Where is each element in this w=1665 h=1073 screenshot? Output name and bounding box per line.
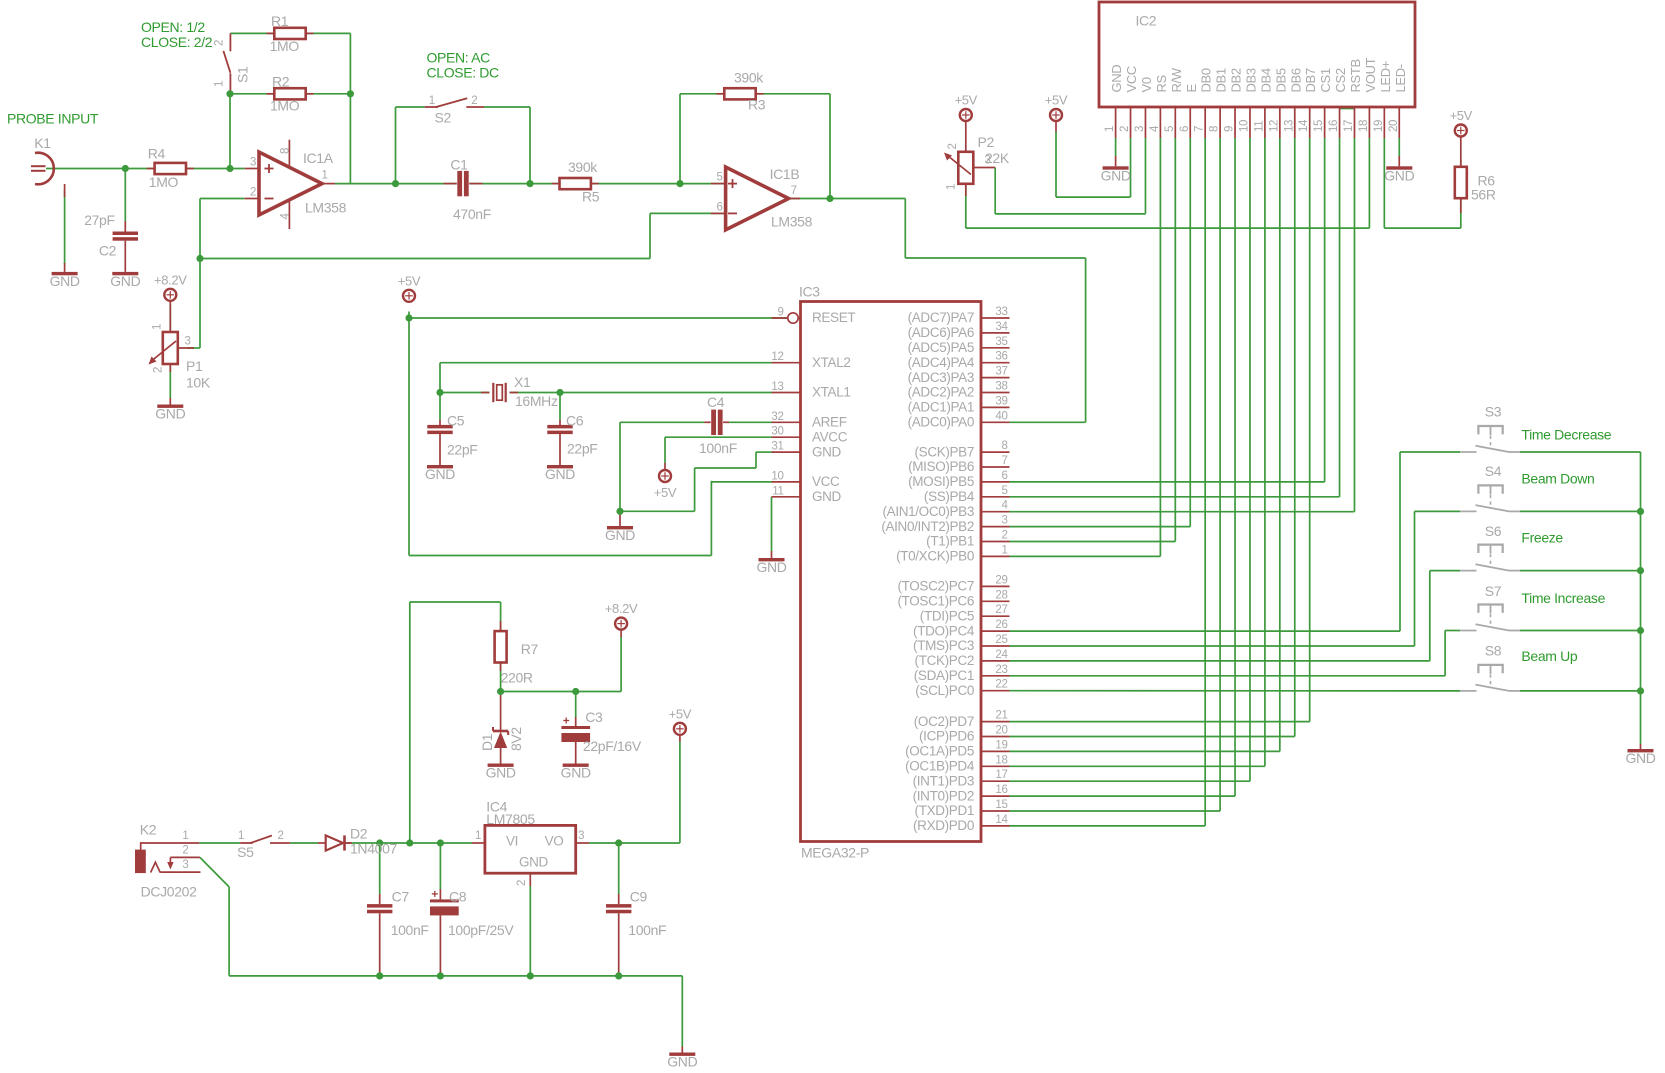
svg-text:GND: GND bbox=[519, 855, 549, 870]
svg-text:+5V: +5V bbox=[1450, 108, 1473, 123]
svg-text:13: 13 bbox=[1283, 120, 1295, 132]
svg-text:22pF/16V: 22pF/16V bbox=[583, 738, 642, 754]
svg-text:5: 5 bbox=[717, 172, 723, 184]
svg-text:X1: X1 bbox=[514, 374, 531, 390]
svg-text:2: 2 bbox=[153, 367, 165, 373]
svg-text:6: 6 bbox=[1179, 126, 1191, 132]
svg-text:D1: D1 bbox=[479, 733, 495, 751]
svg-text:24: 24 bbox=[995, 649, 1008, 661]
svg-text:(ADC5)PA5: (ADC5)PA5 bbox=[908, 340, 974, 355]
svg-text:3: 3 bbox=[985, 155, 991, 167]
svg-text:C8: C8 bbox=[449, 889, 467, 905]
svg-text:(RXD)PD0: (RXD)PD0 bbox=[913, 818, 974, 833]
svg-text:12: 12 bbox=[771, 351, 783, 363]
svg-text:AREF: AREF bbox=[812, 415, 847, 430]
svg-text:26: 26 bbox=[995, 619, 1007, 631]
svg-text:R2: R2 bbox=[272, 74, 290, 90]
svg-text:(TDO)PC4: (TDO)PC4 bbox=[913, 623, 975, 638]
svg-text:R/W: R/W bbox=[1169, 67, 1184, 92]
svg-text:(ADC3)PA3: (ADC3)PA3 bbox=[908, 370, 974, 385]
svg-text:C3: C3 bbox=[585, 709, 603, 725]
svg-text:390k: 390k bbox=[734, 70, 764, 86]
svg-text:28: 28 bbox=[995, 589, 1007, 601]
svg-text:6: 6 bbox=[1001, 470, 1007, 482]
svg-text:29: 29 bbox=[995, 574, 1007, 586]
svg-text:9: 9 bbox=[1224, 126, 1236, 132]
svg-text:P2: P2 bbox=[978, 134, 995, 150]
svg-text:RSTB: RSTB bbox=[1348, 59, 1363, 92]
svg-text:(OC1A)PD5: (OC1A)PD5 bbox=[905, 744, 974, 759]
svg-text:(TMS)PC3: (TMS)PC3 bbox=[913, 638, 974, 653]
svg-text:GND: GND bbox=[605, 527, 635, 543]
svg-text:(INT1)PD3: (INT1)PD3 bbox=[913, 773, 974, 788]
svg-text:+8.2V: +8.2V bbox=[605, 601, 638, 616]
svg-text:(ADC7)PA7: (ADC7)PA7 bbox=[908, 310, 974, 325]
svg-text:DB2: DB2 bbox=[1229, 68, 1244, 92]
svg-text:R7: R7 bbox=[521, 641, 539, 657]
svg-text:CS1: CS1 bbox=[1318, 68, 1333, 92]
svg-text:+5V: +5V bbox=[669, 706, 692, 721]
svg-text:D2: D2 bbox=[350, 826, 368, 842]
svg-text:33: 33 bbox=[995, 306, 1007, 318]
svg-text:C6: C6 bbox=[566, 413, 584, 429]
svg-text:1: 1 bbox=[152, 324, 164, 330]
svg-text:(TOSC1)PC6: (TOSC1)PC6 bbox=[897, 594, 974, 609]
svg-text:13: 13 bbox=[771, 381, 783, 393]
svg-text:19: 19 bbox=[1373, 120, 1385, 132]
svg-text:Time Increase: Time Increase bbox=[1521, 590, 1605, 606]
svg-text:31: 31 bbox=[771, 441, 783, 453]
svg-text:23: 23 bbox=[995, 664, 1007, 676]
svg-text:1: 1 bbox=[429, 95, 435, 107]
svg-text:18: 18 bbox=[995, 754, 1007, 766]
svg-text:2: 2 bbox=[1119, 126, 1131, 132]
svg-text:R3: R3 bbox=[748, 97, 766, 113]
svg-text:LM358: LM358 bbox=[771, 214, 813, 230]
svg-text:20: 20 bbox=[995, 725, 1007, 737]
svg-text:9: 9 bbox=[777, 307, 783, 319]
svg-text:S8: S8 bbox=[1485, 642, 1502, 658]
svg-text:R1: R1 bbox=[271, 13, 289, 29]
svg-text:7: 7 bbox=[1194, 126, 1206, 132]
svg-text:LM358: LM358 bbox=[305, 200, 347, 216]
svg-text:(ICP)PD6: (ICP)PD6 bbox=[919, 729, 974, 744]
svg-text:(AIN1/OC0)PB3: (AIN1/OC0)PB3 bbox=[883, 504, 974, 519]
svg-text:(TXD)PD1: (TXD)PD1 bbox=[915, 803, 974, 818]
svg-text:1: 1 bbox=[214, 81, 226, 87]
svg-text:+5V: +5V bbox=[955, 93, 978, 108]
svg-text:Freeze: Freeze bbox=[1521, 530, 1563, 546]
svg-text:14: 14 bbox=[995, 814, 1008, 826]
svg-text:2: 2 bbox=[947, 143, 959, 149]
svg-text:GND: GND bbox=[812, 489, 842, 504]
svg-text:C7: C7 bbox=[392, 889, 410, 905]
svg-text:32: 32 bbox=[771, 411, 783, 423]
svg-text:VO: VO bbox=[545, 834, 564, 849]
svg-text:S5: S5 bbox=[237, 844, 254, 860]
svg-text:(ADC2)PA2: (ADC2)PA2 bbox=[908, 385, 974, 400]
svg-text:DCJ0202: DCJ0202 bbox=[141, 884, 197, 900]
svg-text:8: 8 bbox=[1209, 126, 1221, 132]
svg-text:3: 3 bbox=[1134, 126, 1146, 132]
svg-text:22pF: 22pF bbox=[567, 441, 598, 457]
svg-text:GND: GND bbox=[110, 273, 140, 289]
svg-text:+5V: +5V bbox=[654, 485, 677, 500]
svg-text:4: 4 bbox=[280, 213, 292, 220]
svg-text:GND: GND bbox=[667, 1054, 697, 1070]
svg-text:S6: S6 bbox=[1485, 523, 1502, 539]
svg-text:GND: GND bbox=[1625, 750, 1655, 766]
svg-text:GND: GND bbox=[1101, 168, 1131, 184]
svg-text:15: 15 bbox=[995, 799, 1007, 811]
svg-text:(ADC1)PA1: (ADC1)PA1 bbox=[908, 400, 974, 415]
svg-text:IC1B: IC1B bbox=[770, 166, 800, 182]
svg-text:Time Decrease: Time Decrease bbox=[1521, 427, 1611, 443]
svg-text:100nF: 100nF bbox=[391, 922, 429, 938]
svg-text:19: 19 bbox=[995, 739, 1007, 751]
svg-text:6: 6 bbox=[717, 201, 723, 213]
svg-text:1MO: 1MO bbox=[270, 98, 300, 114]
svg-text:GND: GND bbox=[50, 273, 80, 289]
svg-text:(TDI)PC5: (TDI)PC5 bbox=[920, 608, 974, 623]
svg-text:R4: R4 bbox=[148, 146, 166, 162]
svg-text:1: 1 bbox=[1104, 126, 1116, 132]
svg-text:15: 15 bbox=[1313, 120, 1325, 132]
svg-text:27pF: 27pF bbox=[84, 212, 115, 228]
svg-text:8: 8 bbox=[280, 148, 292, 154]
svg-text:P1: P1 bbox=[186, 358, 203, 374]
svg-text:DB1: DB1 bbox=[1214, 68, 1229, 92]
svg-text:(INT0)PD2: (INT0)PD2 bbox=[913, 788, 974, 803]
svg-text:GND: GND bbox=[545, 466, 575, 482]
svg-text:16MHz: 16MHz bbox=[515, 393, 558, 409]
svg-text:S7: S7 bbox=[1485, 583, 1502, 599]
svg-text:1N4007: 1N4007 bbox=[350, 841, 398, 857]
svg-text:GND: GND bbox=[425, 466, 455, 482]
svg-text:25: 25 bbox=[995, 634, 1007, 646]
svg-text:37: 37 bbox=[995, 366, 1007, 378]
svg-text:(SS)PB4: (SS)PB4 bbox=[924, 489, 975, 504]
svg-text:7: 7 bbox=[791, 185, 797, 197]
svg-text:IC3: IC3 bbox=[799, 284, 820, 300]
svg-text:5: 5 bbox=[1164, 126, 1176, 132]
svg-text:GND: GND bbox=[1109, 65, 1124, 93]
svg-text:DB6: DB6 bbox=[1288, 68, 1303, 92]
svg-text:2: 2 bbox=[516, 880, 528, 886]
svg-text:DB7: DB7 bbox=[1303, 68, 1318, 92]
svg-text:34: 34 bbox=[995, 321, 1008, 333]
svg-text:1: 1 bbox=[322, 170, 328, 182]
svg-text:S1: S1 bbox=[235, 66, 251, 83]
svg-text:CLOSE: DC: CLOSE: DC bbox=[427, 65, 500, 81]
svg-text:1: 1 bbox=[475, 830, 481, 842]
svg-text:(T1)PB1: (T1)PB1 bbox=[926, 534, 974, 549]
svg-text:AVCC: AVCC bbox=[812, 429, 848, 444]
svg-text:GND: GND bbox=[756, 559, 786, 575]
svg-text:7: 7 bbox=[1001, 455, 1007, 467]
svg-text:DB5: DB5 bbox=[1273, 68, 1288, 92]
svg-text:(ADC4)PA4: (ADC4)PA4 bbox=[908, 355, 975, 370]
svg-text:2: 2 bbox=[214, 40, 226, 46]
svg-text:38: 38 bbox=[995, 381, 1007, 393]
svg-text:S2: S2 bbox=[435, 110, 452, 126]
svg-text:E: E bbox=[1184, 84, 1199, 93]
svg-text:8: 8 bbox=[1001, 440, 1007, 452]
svg-text:C5: C5 bbox=[447, 413, 465, 429]
svg-text:36: 36 bbox=[995, 351, 1007, 363]
svg-text:GND: GND bbox=[155, 406, 185, 422]
svg-text:20: 20 bbox=[1388, 120, 1400, 132]
svg-text:3: 3 bbox=[250, 157, 256, 169]
svg-text:Beam Up: Beam Up bbox=[1521, 648, 1577, 664]
svg-text:4: 4 bbox=[1149, 125, 1161, 132]
svg-text:11: 11 bbox=[772, 485, 783, 497]
svg-text:RS: RS bbox=[1154, 74, 1169, 92]
svg-text:3: 3 bbox=[185, 336, 191, 348]
svg-text:27: 27 bbox=[995, 604, 1007, 616]
svg-text:LED+: LED+ bbox=[1378, 61, 1393, 92]
svg-text:2: 2 bbox=[182, 845, 188, 857]
svg-text:V0: V0 bbox=[1139, 77, 1154, 92]
svg-text:1: 1 bbox=[238, 830, 244, 842]
svg-text:OPEN: 1/2: OPEN: 1/2 bbox=[141, 19, 205, 35]
svg-text:DB4: DB4 bbox=[1258, 68, 1273, 92]
svg-text:3: 3 bbox=[578, 830, 584, 842]
svg-text:CS2: CS2 bbox=[1333, 68, 1348, 92]
svg-text:17: 17 bbox=[1343, 120, 1355, 132]
svg-text:100nF: 100nF bbox=[699, 440, 737, 456]
svg-text:1MO: 1MO bbox=[270, 38, 300, 54]
svg-text:2: 2 bbox=[277, 830, 283, 842]
svg-text:+5V: +5V bbox=[398, 273, 421, 288]
svg-text:100pF/25V: 100pF/25V bbox=[448, 922, 514, 938]
svg-text:(ADC0)PA0: (ADC0)PA0 bbox=[908, 415, 974, 430]
svg-text:S3: S3 bbox=[1485, 404, 1502, 420]
svg-text:1: 1 bbox=[946, 184, 958, 190]
svg-text:220R: 220R bbox=[501, 669, 533, 685]
svg-text:2: 2 bbox=[250, 187, 256, 199]
svg-text:XTAL2: XTAL2 bbox=[812, 355, 851, 370]
svg-text:VCC: VCC bbox=[812, 474, 840, 489]
svg-text:5: 5 bbox=[1001, 485, 1007, 497]
svg-text:11: 11 bbox=[1253, 121, 1265, 132]
svg-text:PROBE INPUT: PROBE INPUT bbox=[7, 111, 99, 127]
svg-text:(TOSC2)PC7: (TOSC2)PC7 bbox=[897, 579, 974, 594]
svg-text:VI: VI bbox=[506, 834, 518, 849]
svg-text:22: 22 bbox=[995, 679, 1007, 691]
svg-text:2: 2 bbox=[471, 95, 477, 107]
svg-text:(AIN0/INT2)PB2: (AIN0/INT2)PB2 bbox=[881, 519, 974, 534]
svg-text:OPEN: AC: OPEN: AC bbox=[427, 50, 491, 66]
svg-text:K2: K2 bbox=[140, 822, 157, 838]
svg-text:GND: GND bbox=[1384, 168, 1414, 184]
svg-text:C9: C9 bbox=[630, 889, 648, 905]
svg-text:4: 4 bbox=[1001, 500, 1008, 512]
svg-text:3: 3 bbox=[1001, 515, 1007, 527]
svg-text:Beam Down: Beam Down bbox=[1521, 471, 1594, 487]
svg-text:VCC: VCC bbox=[1124, 66, 1139, 92]
svg-text:IC1A: IC1A bbox=[303, 150, 334, 166]
svg-text:3: 3 bbox=[182, 859, 188, 871]
svg-text:(MOSI)PB5: (MOSI)PB5 bbox=[908, 474, 974, 489]
svg-text:10: 10 bbox=[1238, 120, 1250, 132]
svg-text:35: 35 bbox=[995, 336, 1007, 348]
svg-text:+5V: +5V bbox=[1045, 93, 1068, 108]
svg-text:LM7805: LM7805 bbox=[486, 811, 535, 827]
svg-text:10: 10 bbox=[771, 470, 783, 482]
svg-text:16: 16 bbox=[1328, 120, 1340, 132]
svg-text:17: 17 bbox=[995, 769, 1007, 781]
svg-text:DB3: DB3 bbox=[1243, 68, 1258, 92]
svg-text:8V2: 8V2 bbox=[508, 727, 524, 751]
svg-text:470nF: 470nF bbox=[453, 206, 491, 222]
svg-text:21: 21 bbox=[995, 710, 1007, 722]
svg-text:1MO: 1MO bbox=[149, 174, 179, 190]
svg-text:DB0: DB0 bbox=[1199, 68, 1214, 92]
svg-text:1: 1 bbox=[182, 830, 188, 842]
svg-text:(SDA)PC1: (SDA)PC1 bbox=[914, 668, 974, 683]
svg-text:(OC1B)PD4: (OC1B)PD4 bbox=[905, 759, 975, 774]
svg-text:56R: 56R bbox=[1471, 186, 1496, 202]
svg-text:K1: K1 bbox=[34, 135, 51, 151]
svg-text:MEGA32-P: MEGA32-P bbox=[801, 845, 869, 861]
svg-text:30: 30 bbox=[771, 426, 783, 438]
svg-text:RESET: RESET bbox=[812, 310, 855, 325]
svg-text:(MISO)PB6: (MISO)PB6 bbox=[908, 459, 974, 474]
svg-text:1: 1 bbox=[1001, 544, 1007, 556]
svg-text:GND: GND bbox=[812, 444, 842, 459]
svg-text:R5: R5 bbox=[582, 189, 600, 205]
svg-text:(TCK)PC2: (TCK)PC2 bbox=[915, 653, 974, 668]
svg-text:390k: 390k bbox=[568, 159, 598, 175]
svg-text:LED-: LED- bbox=[1393, 64, 1408, 92]
svg-text:GND: GND bbox=[486, 765, 516, 781]
svg-text:XTAL1: XTAL1 bbox=[812, 385, 851, 400]
svg-text:VOUT: VOUT bbox=[1363, 57, 1378, 92]
svg-text:(SCK)PB7: (SCK)PB7 bbox=[915, 444, 974, 459]
svg-text:14: 14 bbox=[1298, 119, 1310, 132]
svg-text:12: 12 bbox=[1268, 120, 1280, 132]
svg-text:C4: C4 bbox=[707, 394, 725, 410]
svg-text:C2: C2 bbox=[99, 243, 117, 259]
svg-text:(OC2)PD7: (OC2)PD7 bbox=[914, 714, 974, 729]
svg-text:GND: GND bbox=[561, 765, 591, 781]
svg-text:18: 18 bbox=[1358, 120, 1370, 132]
svg-text:IC2: IC2 bbox=[1136, 13, 1157, 29]
svg-text:S4: S4 bbox=[1485, 463, 1502, 479]
svg-text:16: 16 bbox=[995, 784, 1007, 796]
svg-text:(ADC6)PA6: (ADC6)PA6 bbox=[908, 325, 974, 340]
svg-text:100nF: 100nF bbox=[628, 922, 666, 938]
svg-text:22pF: 22pF bbox=[447, 442, 478, 458]
svg-text:(T0/XCK)PB0: (T0/XCK)PB0 bbox=[896, 549, 974, 564]
svg-text:CLOSE: 2/2: CLOSE: 2/2 bbox=[141, 34, 213, 50]
svg-text:10K: 10K bbox=[186, 375, 211, 391]
svg-text:C1: C1 bbox=[450, 157, 468, 173]
svg-text:40: 40 bbox=[995, 410, 1007, 422]
svg-text:(SCL)PC0: (SCL)PC0 bbox=[915, 683, 974, 698]
svg-text:2: 2 bbox=[1001, 530, 1007, 542]
svg-text:39: 39 bbox=[995, 395, 1007, 407]
svg-text:+8.2V: +8.2V bbox=[154, 272, 187, 287]
